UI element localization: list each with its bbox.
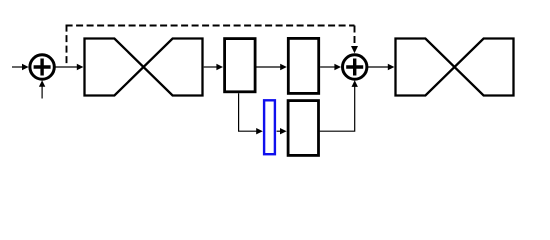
wire S1 to block B1 — [55, 64, 83, 70]
block B2 (bowtie) — [396, 39, 514, 96]
wire R1 to block R2 — [257, 64, 287, 70]
delay D1 (blue thin rectangle) — [264, 100, 275, 154]
wire S2 to block B2 — [368, 64, 395, 70]
wire input arrow into summer S1 — [12, 64, 29, 70]
block B1 (bowtie) — [85, 39, 203, 96]
wire B1 to block R1 — [204, 64, 223, 70]
block R1 (tall rectangle) — [225, 39, 256, 92]
block R3 (lower rectangle) — [288, 101, 318, 156]
wire dashed feedforward path — [66, 25, 358, 66]
block R2 (tall rectangle) — [288, 38, 318, 93]
wire D1 to block R3 — [277, 128, 287, 134]
wire R3 up into summer S2 — [320, 80, 358, 131]
wire R1 down to delay D1 — [239, 93, 263, 134]
summing junction S2 — [343, 55, 367, 79]
wire R2 to summer S2 — [320, 64, 341, 70]
summing junction S1 — [30, 55, 54, 79]
wire bottom arrow into summer S1 — [39, 80, 45, 98]
